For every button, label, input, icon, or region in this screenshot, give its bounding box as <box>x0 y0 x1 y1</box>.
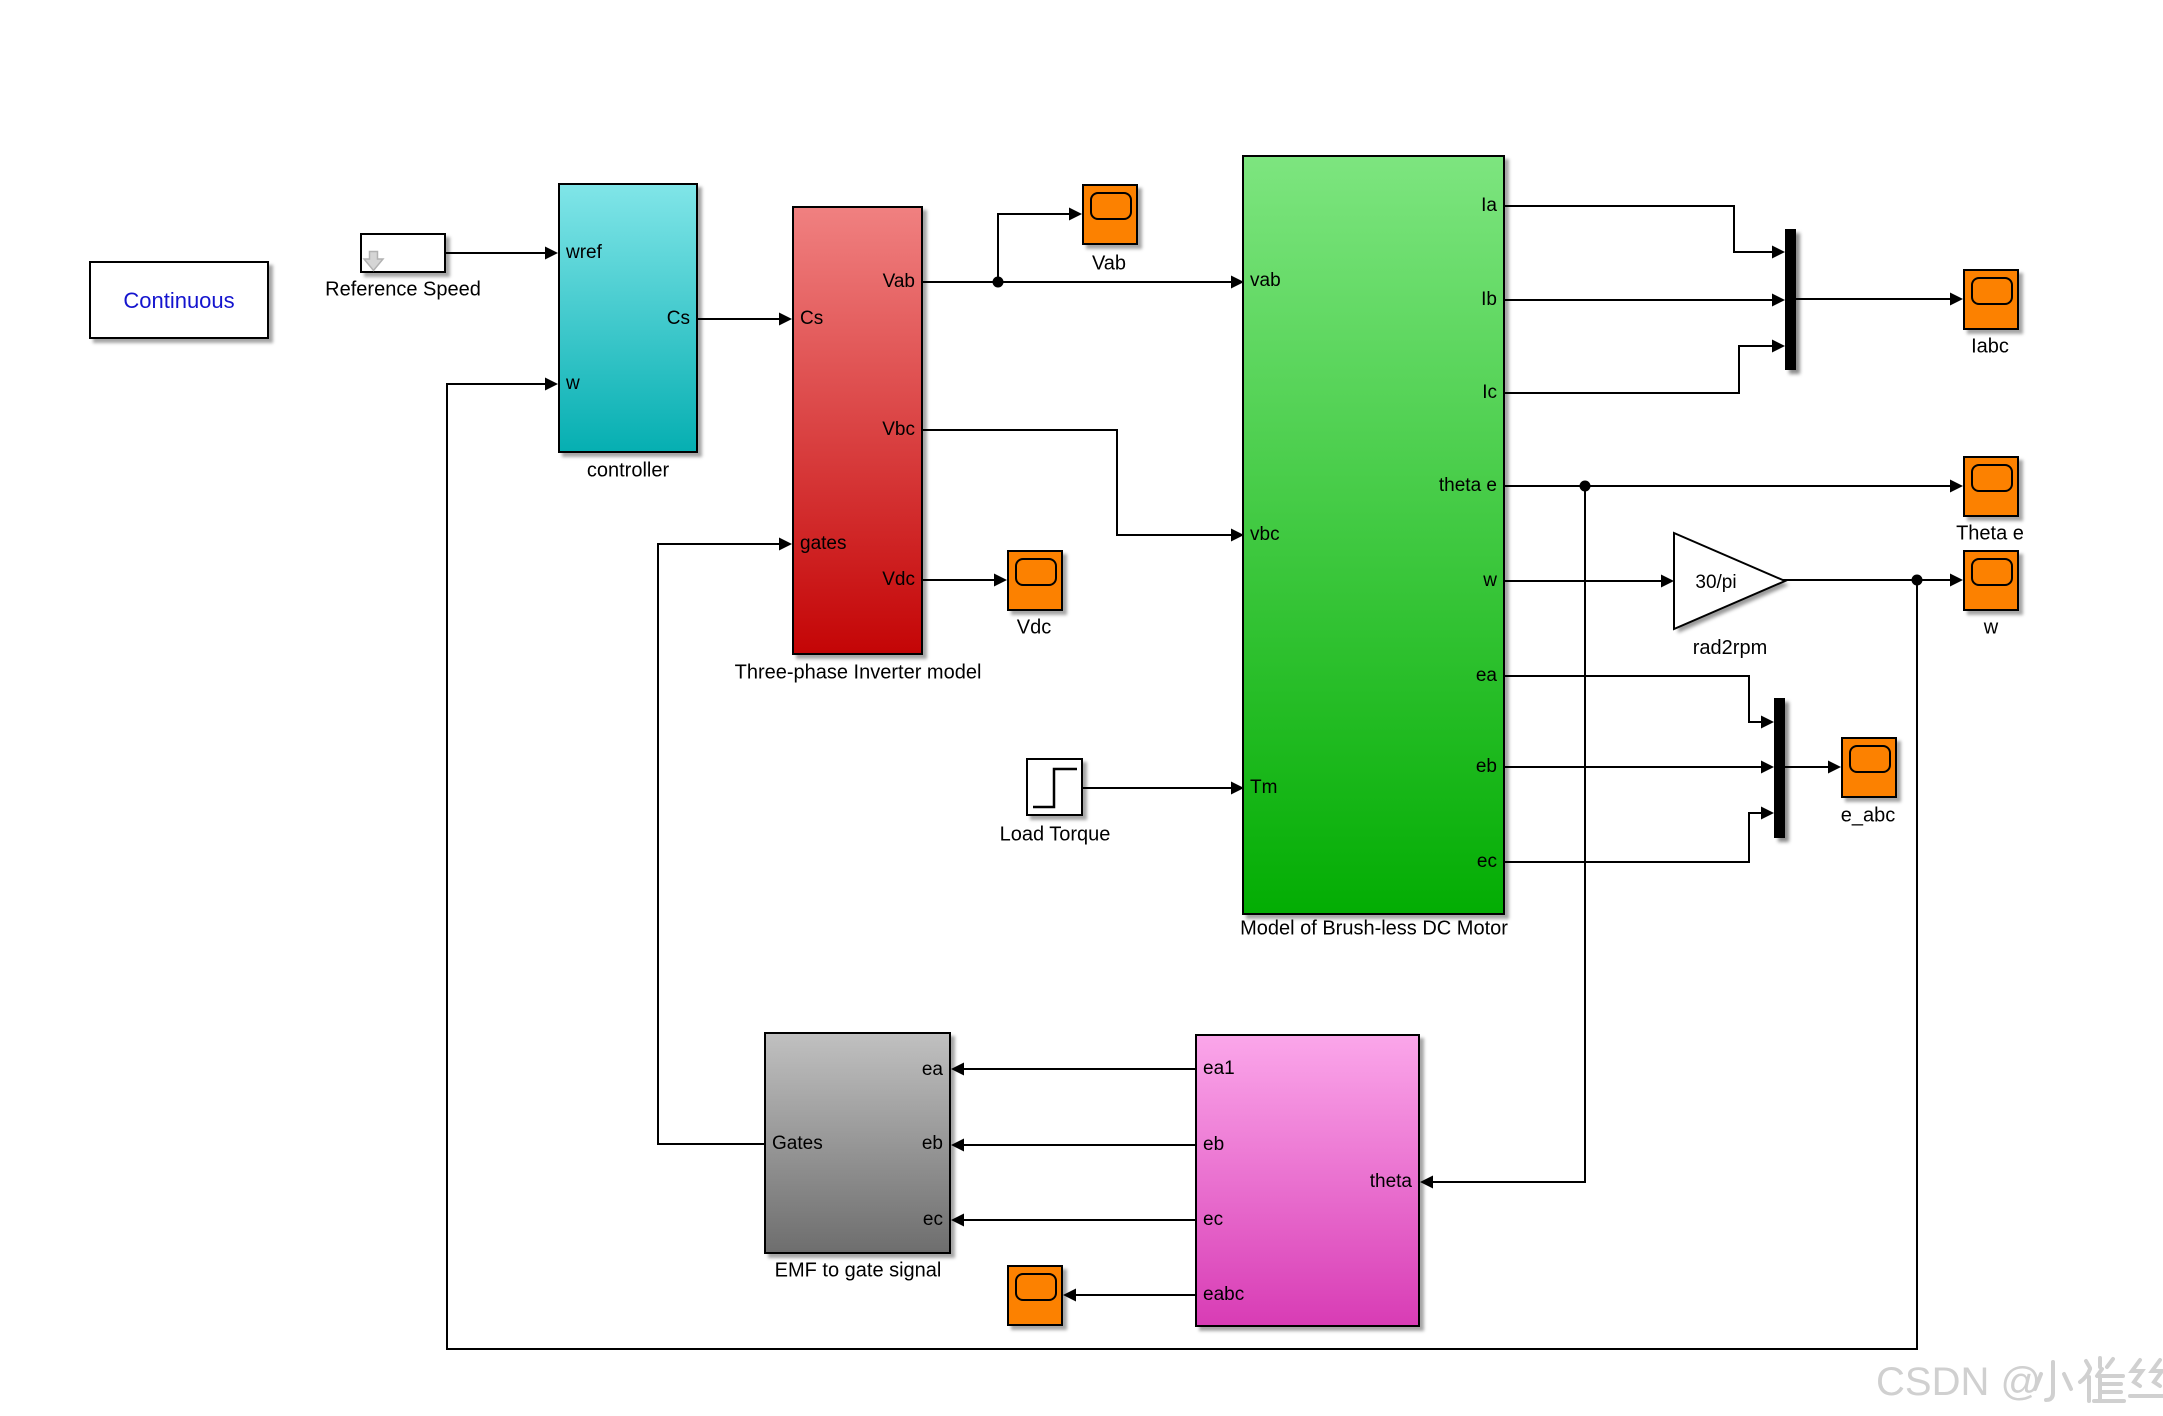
mux e_abc shadow <box>1778 702 1789 842</box>
port label ec out <box>1203 1209 1223 1231</box>
wire eabc to scope <box>1071 1294 1195 1296</box>
port label ea in <box>922 1059 943 1081</box>
wire Vbc to motor vbc <box>923 430 1236 535</box>
port label ea <box>1476 665 1497 687</box>
down-arrow icon in Reference Speed <box>364 252 383 271</box>
subsystem Model of Brush-less DC Motor <box>1242 155 1505 915</box>
wire Ia to mux <box>1505 206 1777 252</box>
port label Vdc <box>882 569 915 591</box>
gain rad2rpm <box>1674 533 1785 629</box>
scope Theta e <box>1963 456 2019 517</box>
watermark CSDN @xiaoquesi (CJK drawn as SVG strokes) <box>1876 1352 2163 1412</box>
arrow into scope w <box>1950 574 1963 587</box>
arrow into Cs <box>779 313 792 326</box>
arrow ea into mux2 <box>1761 716 1774 729</box>
wire ec to EMF ec <box>959 1219 1195 1221</box>
arrow Ib into mux <box>1772 294 1785 307</box>
port label wref <box>566 242 602 264</box>
arrow into scope Theta e <box>1950 480 1963 493</box>
wire Ic to mux <box>1505 346 1777 393</box>
arrow eb into mux2 <box>1761 761 1774 774</box>
glyph xiao <box>2035 1362 2071 1400</box>
wire mux2 to scope e_abc <box>1785 766 1833 768</box>
svg-text:30/pi: 30/pi <box>1695 572 1736 593</box>
arrow into scope Iabc <box>1950 293 1963 306</box>
source block Reference Speed <box>360 233 446 273</box>
glyph que <box>2080 1358 2124 1401</box>
port label theta e <box>1439 475 1497 497</box>
arrow into decoder theta <box>1420 1176 1433 1189</box>
port label Ic <box>1482 382 1497 404</box>
step block Load Torque <box>1026 758 1083 816</box>
wire w feedback loop <box>447 384 1917 1349</box>
arrow into vab <box>1231 276 1244 289</box>
port label vab <box>1250 270 1281 292</box>
port label Vbc <box>882 419 915 441</box>
wire Cs controller to inverter <box>698 318 784 320</box>
port label ec in <box>923 1209 943 1231</box>
arrow into vbc <box>1231 529 1244 542</box>
wire ea to mux2 <box>1505 676 1766 722</box>
port label eb <box>1476 756 1497 778</box>
wire gain to scope w <box>1783 579 1955 581</box>
junction node w <box>1912 575 1923 586</box>
scope w <box>1963 550 2019 611</box>
port label eb in <box>922 1133 943 1155</box>
arrow into wref <box>545 247 558 260</box>
svg-text:rad2rpm: rad2rpm <box>1693 637 1767 659</box>
scope Vab <box>1082 184 1138 245</box>
port label Cs out <box>667 308 690 330</box>
mux Iabc shadow <box>1789 233 1800 374</box>
wire w to gain <box>1505 580 1666 582</box>
wire theta e to scope <box>1505 485 1955 487</box>
wire ea1 to EMF ea <box>959 1068 1195 1070</box>
arrow into scope Vdc <box>994 574 1007 587</box>
port label Gates <box>772 1133 823 1155</box>
port label gates <box>800 533 846 555</box>
port label Ib <box>1481 289 1497 311</box>
port label Ia <box>1481 195 1497 217</box>
subsystem decoder (magenta) <box>1195 1034 1420 1327</box>
port label w <box>566 373 580 395</box>
arrow into w controller <box>545 378 558 391</box>
glyph si <box>2130 1360 2163 1396</box>
powergui block Continuous <box>89 261 269 339</box>
wire Vab to motor vab <box>923 281 1236 283</box>
arrow into scope eabc <box>1063 1289 1076 1302</box>
junction node theta e <box>1580 481 1591 492</box>
port label ec <box>1477 851 1497 873</box>
wire Ib to mux <box>1505 299 1777 301</box>
scope Vdc <box>1007 550 1063 611</box>
scope e_abc <box>1841 737 1897 798</box>
arrow Ic into mux <box>1772 340 1785 353</box>
wire eb to EMF eb <box>959 1144 1195 1146</box>
scope Iabc <box>1963 269 2019 330</box>
arrow Ia into mux <box>1772 246 1785 259</box>
mux Iabc <box>1785 229 1796 370</box>
arrow into gain <box>1661 575 1674 588</box>
arrow into Tm <box>1231 782 1244 795</box>
port label Tm <box>1250 777 1277 799</box>
mux e_abc <box>1774 698 1785 838</box>
port label eabc <box>1203 1284 1244 1306</box>
wire Load Torque to Tm <box>1083 787 1236 789</box>
wire ec to mux2 <box>1505 813 1766 862</box>
port label Vab <box>883 271 915 293</box>
wire Vdc to scope <box>923 579 999 581</box>
wire eb to mux2 <box>1505 766 1766 768</box>
arrow into EMF eb <box>951 1139 964 1152</box>
wire Reference Speed to wref <box>446 252 549 254</box>
arrow into EMF ea <box>951 1063 964 1076</box>
arrow into scope e_abc <box>1828 761 1841 774</box>
wire mux to scope Iabc <box>1796 298 1955 300</box>
arrow into EMF ec <box>951 1214 964 1227</box>
arrow into gates <box>779 538 792 551</box>
subsystem controller <box>558 183 698 453</box>
scope eabc (flipped) <box>1007 1265 1063 1326</box>
wire Gates feedback to gates <box>658 544 784 1144</box>
port label Cs in <box>800 308 823 330</box>
arrow into scope Vab <box>1069 208 1082 221</box>
junction node Vab <box>993 277 1004 288</box>
wire theta e down to decoder theta <box>1428 486 1585 1182</box>
subsystem EMF to gate signal <box>764 1032 951 1254</box>
wire branch Vab to scope <box>998 214 1074 282</box>
svg-text:CSDN @: CSDN @ <box>1876 1360 2041 1404</box>
gain rad2rpm shadow <box>1678 537 1789 633</box>
port label w out <box>1483 570 1497 592</box>
arrow ec into mux2 <box>1761 807 1774 820</box>
step icon in Load Torque <box>1033 769 1077 807</box>
subsystem Three-phase Inverter model <box>792 206 923 655</box>
port label vbc <box>1250 524 1280 546</box>
port label ea1 <box>1203 1058 1235 1080</box>
port label eb out <box>1203 1134 1224 1156</box>
port label theta <box>1370 1171 1412 1193</box>
